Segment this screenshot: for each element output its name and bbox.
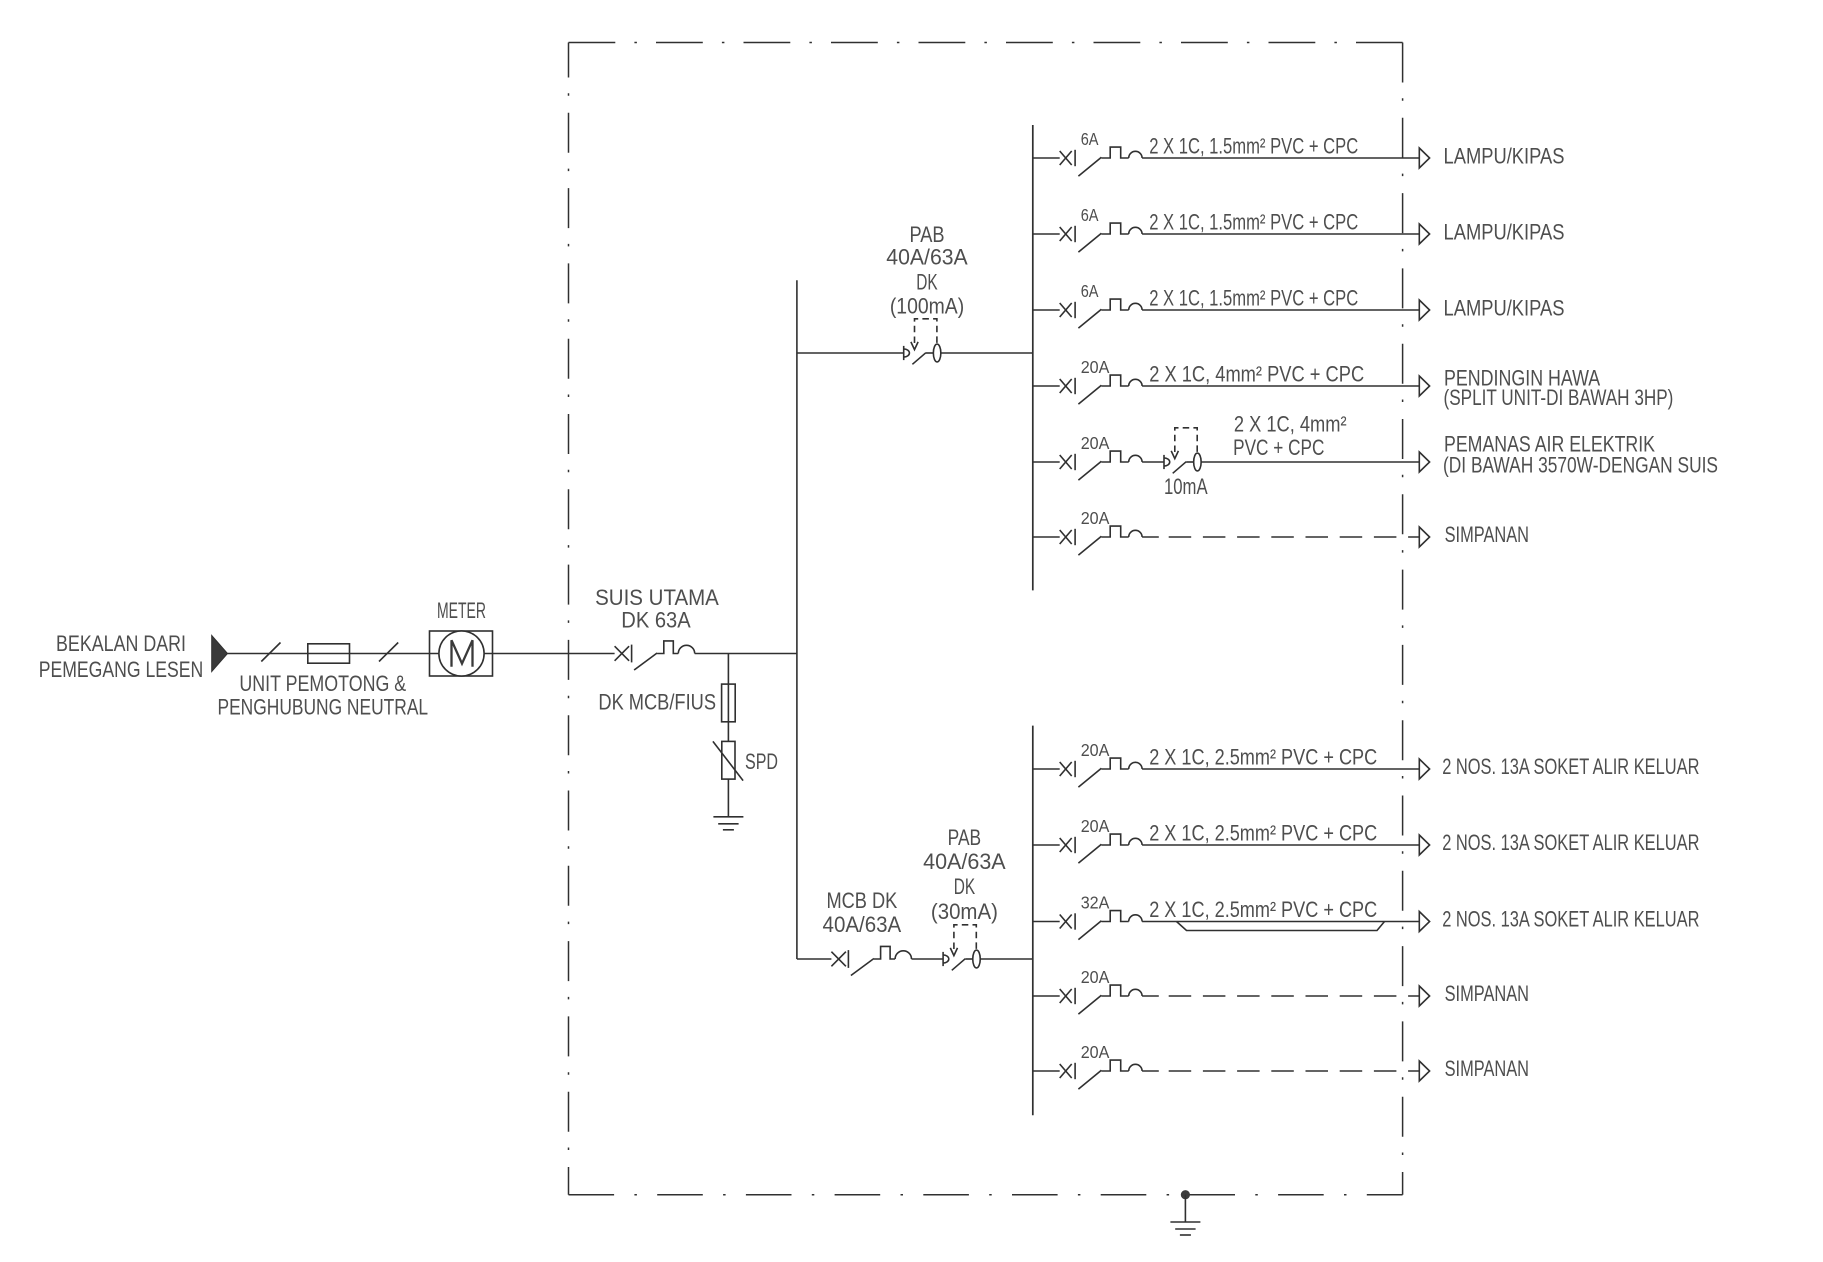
svg-text:UNIT PEMOTONG &: UNIT PEMOTONG & <box>239 671 406 696</box>
svg-text:LAMPU/KIPAS: LAMPU/KIPAS <box>1444 144 1565 169</box>
svg-text:2 X 1C, 4mm² PVC + CPC: 2 X 1C, 4mm² PVC + CPC <box>1149 362 1364 387</box>
svg-text:20A: 20A <box>1081 816 1110 836</box>
svg-text:METER: METER <box>437 598 486 623</box>
svg-text:PAB: PAB <box>909 222 944 247</box>
svg-text:SIMPANAN: SIMPANAN <box>1445 522 1529 547</box>
svg-text:DK: DK <box>916 270 938 295</box>
svg-text:SPD: SPD <box>745 749 778 774</box>
svg-text:20A: 20A <box>1081 433 1110 453</box>
svg-text:2 X 1C, 1.5mm² PVC + CPC: 2 X 1C, 1.5mm² PVC + CPC <box>1149 210 1358 235</box>
svg-text:2 X 1C, 4mm²: 2 X 1C, 4mm² <box>1234 411 1347 436</box>
svg-text:40A/63A: 40A/63A <box>886 245 968 270</box>
svg-text:40A/63A: 40A/63A <box>923 849 1006 874</box>
svg-text:DK: DK <box>954 874 976 899</box>
svg-text:LAMPU/KIPAS: LAMPU/KIPAS <box>1444 220 1565 245</box>
svg-text:40A/63A: 40A/63A <box>823 912 902 937</box>
svg-text:10mA: 10mA <box>1164 474 1208 499</box>
svg-text:(DI BAWAH 3570W-DENGAN SUIS: (DI BAWAH 3570W-DENGAN SUIS <box>1443 453 1718 478</box>
svg-text:DK MCB/FIUS: DK MCB/FIUS <box>598 690 716 715</box>
svg-text:2 NOS. 13A SOKET ALIR KELUAR: 2 NOS. 13A SOKET ALIR KELUAR <box>1442 754 1699 779</box>
svg-text:(SPLIT UNIT-DI BAWAH 3HP): (SPLIT UNIT-DI BAWAH 3HP) <box>1444 385 1674 410</box>
svg-text:32A: 32A <box>1081 893 1110 913</box>
svg-text:6A: 6A <box>1081 129 1099 149</box>
svg-text:LAMPU/KIPAS: LAMPU/KIPAS <box>1444 296 1565 321</box>
svg-text:20A: 20A <box>1081 740 1110 760</box>
svg-text:20A: 20A <box>1081 967 1110 987</box>
svg-text:(100mA): (100mA) <box>890 294 964 319</box>
svg-text:SIMPANAN: SIMPANAN <box>1445 981 1529 1006</box>
svg-text:2 NOS. 13A SOKET ALIR KELUAR: 2 NOS. 13A SOKET ALIR KELUAR <box>1442 830 1699 855</box>
svg-text:20A: 20A <box>1081 508 1110 528</box>
svg-text:PEMEGANG LESEN: PEMEGANG LESEN <box>39 657 204 682</box>
svg-text:2 X 1C, 1.5mm² PVC + CPC: 2 X 1C, 1.5mm² PVC + CPC <box>1149 286 1358 311</box>
svg-text:2 X 1C, 2.5mm² PVC + CPC: 2 X 1C, 2.5mm² PVC + CPC <box>1149 745 1377 770</box>
svg-text:2 X 1C, 1.5mm² PVC + CPC: 2 X 1C, 1.5mm² PVC + CPC <box>1149 134 1358 159</box>
svg-text:BEKALAN DARI: BEKALAN DARI <box>56 631 186 656</box>
svg-text:PVC + CPC: PVC + CPC <box>1233 435 1324 460</box>
svg-text:MCB DK: MCB DK <box>826 888 897 913</box>
svg-text:DK 63A: DK 63A <box>621 608 691 633</box>
svg-text:20A: 20A <box>1081 1042 1110 1062</box>
svg-text:2 X 1C, 2.5mm² PVC + CPC: 2 X 1C, 2.5mm² PVC + CPC <box>1149 821 1377 846</box>
svg-text:PENGHUBUNG NEUTRAL: PENGHUBUNG NEUTRAL <box>217 695 428 720</box>
svg-text:(30mA): (30mA) <box>931 899 998 924</box>
svg-text:20A: 20A <box>1081 357 1110 377</box>
svg-text:6A: 6A <box>1081 281 1099 301</box>
svg-text:SIMPANAN: SIMPANAN <box>1445 1056 1529 1081</box>
svg-text:2 NOS. 13A SOKET ALIR KELUAR: 2 NOS. 13A SOKET ALIR KELUAR <box>1442 907 1699 932</box>
svg-text:PAB: PAB <box>948 825 982 850</box>
svg-text:6A: 6A <box>1081 205 1099 225</box>
svg-text:SUIS UTAMA: SUIS UTAMA <box>595 585 719 610</box>
svg-text:2 X 1C, 2.5mm² PVC + CPC: 2 X 1C, 2.5mm² PVC + CPC <box>1149 897 1377 922</box>
